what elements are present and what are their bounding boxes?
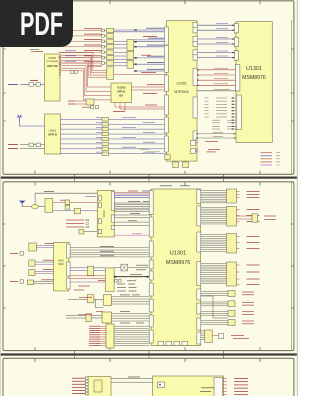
svg-text:WFR-B: WFR-B <box>48 133 57 137</box>
svg-text:CONN: CONN <box>103 210 106 217</box>
svg-text:MSM8976: MSM8976 <box>242 75 266 81</box>
svg-text:U1301: U1301 <box>170 250 186 256</box>
svg-text:U1501: U1501 <box>49 128 57 132</box>
svg-text:WCN3680B: WCN3680B <box>46 61 58 63</box>
svg-text:U1502: U1502 <box>48 56 56 60</box>
svg-text:WTR3945: WTR3945 <box>174 90 189 94</box>
svg-text:XFR-B: XFR-B <box>117 89 125 93</box>
svg-text:PDF: PDF <box>20 6 63 42</box>
svg-text:U1301: U1301 <box>246 66 262 72</box>
svg-text:ANT FM: ANT FM <box>47 64 58 68</box>
svg-text:U1503: U1503 <box>117 85 126 89</box>
svg-text:U1301: U1301 <box>177 82 187 86</box>
svg-text:MSM8976: MSM8976 <box>166 260 191 266</box>
svg-text:9326: 9326 <box>58 263 64 266</box>
svg-text:BA: BA <box>119 93 123 97</box>
